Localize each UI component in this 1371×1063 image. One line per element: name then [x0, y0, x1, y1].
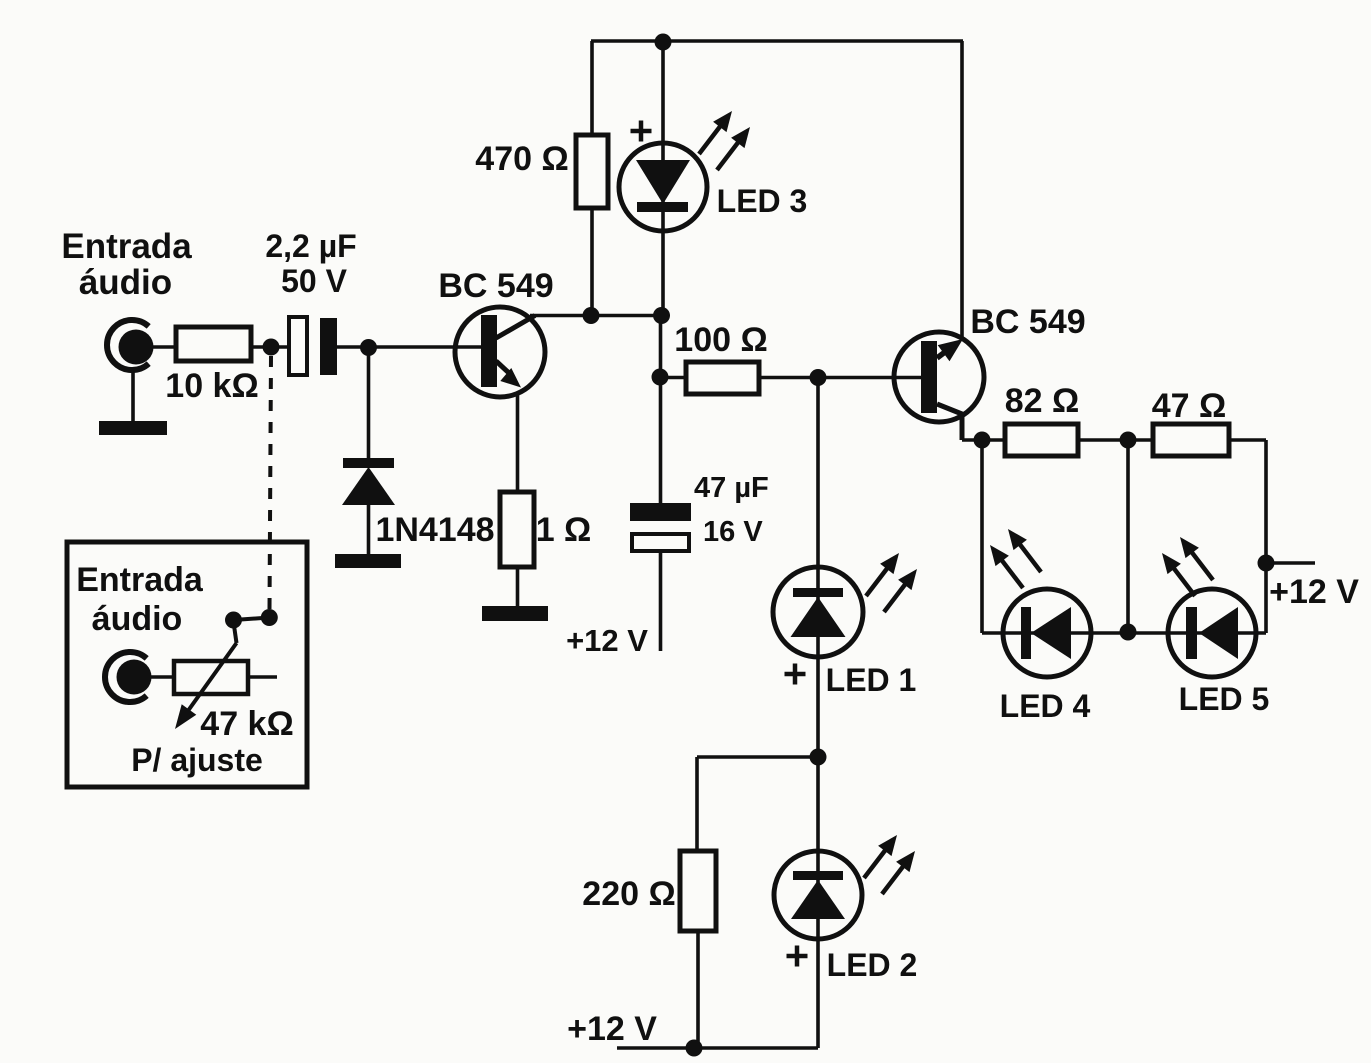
wire C2 bottom lead [659, 551, 663, 651]
node LED1 bottom / 220R branch [810, 749, 827, 766]
wire Q2 collector vertical [960, 41, 964, 338]
wire C1 to Q1 base [337, 345, 481, 349]
svg-text:áudio: áudio [92, 600, 183, 638]
wire 220R branch horizontal [697, 755, 818, 759]
resistor 1 Ohm [500, 492, 534, 567]
LED D4 [1003, 589, 1091, 677]
label plus sign LED2 [787, 946, 808, 967]
svg-text:47 µF: 47 µF [694, 472, 769, 504]
svg-text:BC 549: BC 549 [970, 303, 1085, 341]
wire 100R left lead [660, 376, 686, 380]
svg-text:+12 V: +12 V [567, 1010, 657, 1048]
svg-text:LED 1: LED 1 [826, 662, 917, 698]
svg-text:1 Ω: 1 Ω [536, 511, 592, 549]
wire R1 to C1 [251, 345, 289, 349]
node collector/470R [583, 307, 600, 324]
node 100R right / LED1 branch [810, 369, 827, 386]
svg-text:P/ ajuste: P/ ajuste [131, 742, 263, 778]
capacitor C2 47uF [630, 503, 691, 551]
LED D5 [1168, 589, 1256, 677]
LED1 light arrows [866, 553, 917, 612]
wire dashed link to adjust box [270, 356, 272, 609]
svg-text:+12 V: +12 V [566, 623, 648, 658]
wire Q1 emitter lead [516, 392, 520, 492]
label plus sign LED3 [631, 121, 652, 142]
resistor 82 Ohm [1005, 424, 1078, 456]
wire LED3 node down to 100R node and C2 [659, 316, 663, 504]
wire 470R top lead [590, 41, 594, 135]
svg-text:47 Ω: 47 Ω [1152, 387, 1227, 425]
wire 100R to Q2 base [759, 376, 922, 380]
svg-text:47 kΩ: 47 kΩ [200, 705, 293, 743]
wire jack to R1 [153, 345, 176, 349]
resistor 47 Ohm [1153, 424, 1229, 456]
LED D3 [619, 143, 707, 231]
wire LED3 vertical branch [661, 41, 665, 316]
pot wiper arrow [175, 622, 237, 729]
wire 1R bottom lead [516, 567, 520, 606]
wire 220R bottom lead [696, 931, 700, 1048]
node between 82R and 47R [1120, 432, 1137, 449]
node LED4/LED5 row mid [1120, 624, 1137, 641]
potentiometer 47k body [174, 661, 248, 694]
wire LED4 left branch down [980, 440, 984, 633]
svg-text:50 V: 50 V [281, 263, 347, 299]
wire Q1 collector line [530, 314, 662, 318]
wire 82R to 47R [1078, 438, 1153, 442]
node top rail junction [655, 34, 672, 51]
capacitor C1 2.2uF [289, 317, 337, 375]
ground 1R [482, 606, 548, 621]
node 100R left [652, 369, 669, 386]
input jack J2 [105, 652, 152, 702]
ground diode [335, 554, 401, 568]
LED2 light arrows [864, 835, 915, 894]
svg-text:10 kΩ: 10 kΩ [165, 367, 258, 405]
svg-text:LED 5: LED 5 [1179, 681, 1270, 717]
wire LED4/LED5 bottom row [982, 631, 1266, 635]
wire mid branch down [1126, 440, 1130, 633]
svg-text:82 Ω: 82 Ω [1005, 382, 1080, 420]
box adjust input [67, 542, 307, 787]
node pot wiper dots [225, 612, 242, 629]
node emitter/LED4 branch [974, 432, 991, 449]
resistor 220 Ohm [680, 851, 716, 931]
input jack J1 [107, 320, 154, 370]
node bottom rail / 220R [686, 1040, 703, 1057]
wire bottom +12V rail [617, 1046, 818, 1050]
wire Q2 emitter row [962, 438, 1005, 442]
resistor 10k [176, 327, 251, 361]
LED3 light arrows [699, 111, 750, 170]
LED D2 [774, 851, 862, 939]
svg-text:2,2 µF: 2,2 µF [265, 228, 356, 264]
wire 47R to +12V corner [1229, 438, 1266, 442]
node base/diode node [360, 339, 377, 356]
svg-text:Entrada: Entrada [61, 227, 192, 266]
svg-text:+12 V: +12 V [1269, 573, 1359, 611]
ground jack [99, 421, 167, 435]
resistor 470 Ohm [576, 135, 608, 208]
wire pot right lead [248, 675, 277, 679]
svg-text:100 Ω: 100 Ω [674, 321, 767, 359]
wire LED1/LED2 vertical column [816, 378, 820, 1049]
svg-text:BC 549: BC 549 [438, 267, 553, 305]
svg-text:LED 3: LED 3 [717, 183, 808, 219]
diode 1N4148 [342, 348, 395, 555]
wire top supply rail [591, 39, 963, 43]
wire 220R top lead [695, 757, 699, 851]
node input node [263, 339, 280, 356]
node +12V right [1258, 555, 1275, 572]
svg-text:470 Ω: 470 Ω [475, 140, 568, 178]
transistor Q1 BC549 [455, 307, 545, 397]
label plus sign LED1 [785, 664, 806, 685]
LED5 light arrows [1162, 537, 1213, 596]
svg-text:LED 4: LED 4 [1000, 688, 1091, 724]
wire right +12V vertical [1264, 440, 1268, 633]
transistor Q2 BC549 [894, 332, 984, 440]
wire jack2 to pot [151, 675, 174, 679]
LED4 light arrows [990, 529, 1041, 588]
svg-text:1N4148: 1N4148 [375, 511, 494, 549]
wire jack ground lead [131, 372, 135, 421]
svg-text:220 Ω: 220 Ω [582, 875, 675, 913]
resistor 100 Ohm [686, 362, 759, 394]
wire dot link [234, 618, 270, 621]
svg-text:LED 2: LED 2 [827, 947, 918, 983]
svg-text:16 V: 16 V [703, 516, 763, 548]
svg-text:áudio: áudio [79, 263, 172, 302]
wire +12V stub [1266, 561, 1315, 565]
wire 470R bottom lead [590, 208, 594, 316]
node collector/LED3 [653, 307, 670, 324]
LED D1 [773, 567, 863, 657]
svg-text:Entrada: Entrada [76, 561, 204, 599]
